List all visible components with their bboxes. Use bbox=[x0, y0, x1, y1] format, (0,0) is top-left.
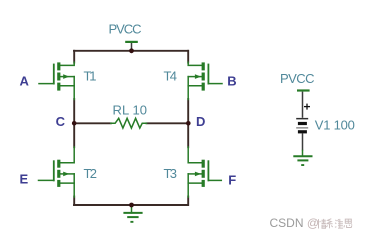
svg-text:T4: T4 bbox=[164, 69, 178, 84]
svg-text:D: D bbox=[196, 114, 205, 129]
svg-text:T1: T1 bbox=[84, 69, 97, 84]
svg-text:V1 100: V1 100 bbox=[315, 117, 355, 132]
svg-text:T2: T2 bbox=[84, 166, 98, 181]
svg-text:PVCC: PVCC bbox=[280, 71, 315, 86]
svg-text:F: F bbox=[228, 172, 236, 187]
svg-text:C: C bbox=[56, 114, 66, 129]
svg-text:PVCC: PVCC bbox=[109, 21, 142, 36]
svg-text:E: E bbox=[20, 172, 29, 187]
svg-text:CSDN @: CSDN @ bbox=[270, 216, 320, 230]
svg-text:RL 10: RL 10 bbox=[113, 102, 148, 117]
svg-text:A: A bbox=[20, 74, 30, 89]
svg-text:B: B bbox=[227, 74, 236, 89]
svg-text:T3: T3 bbox=[164, 166, 178, 181]
